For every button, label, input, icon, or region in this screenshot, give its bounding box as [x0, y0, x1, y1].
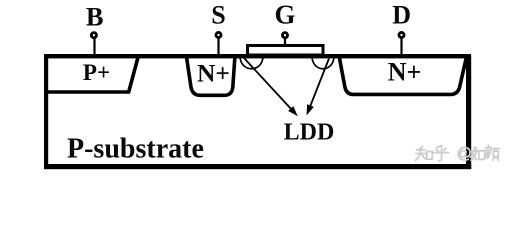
LDD arc left	[240, 56, 263, 69]
LDD arc right	[312, 56, 334, 69]
svg-text:LDD: LDD	[284, 120, 335, 146]
N+ drain region	[339, 56, 467, 95]
N+ source region	[186, 56, 235, 96]
svg-text:S: S	[211, 1, 225, 30]
terminal B lead	[91, 33, 96, 56]
terminal G lead	[282, 33, 287, 46]
terminal D lead	[399, 32, 404, 56]
watermark zhihu @ruyan	[415, 145, 499, 160]
terminal S lead	[216, 32, 221, 56]
arrow right to LDD label	[307, 59, 329, 116]
glyph at	[458, 148, 470, 161]
gate G polysilicon bar	[248, 46, 324, 56]
svg-text:P+: P+	[83, 60, 110, 85]
svg-text:P-substrate: P-substrate	[67, 134, 204, 165]
svg-text:D: D	[392, 1, 411, 30]
substrate box (P-substrate outline)	[44, 54, 471, 169]
svg-text:N+: N+	[388, 58, 422, 87]
arrow left to LDD label	[244, 58, 298, 116]
glyph hu	[434, 146, 449, 161]
P+ region	[46, 56, 139, 93]
glyph ru	[470, 147, 477, 160]
svg-text:N+: N+	[197, 59, 230, 88]
glyph yan	[485, 145, 499, 160]
svg-text:G: G	[274, 0, 295, 30]
glyph zhi	[415, 147, 425, 161]
svg-text:B: B	[86, 2, 104, 32]
